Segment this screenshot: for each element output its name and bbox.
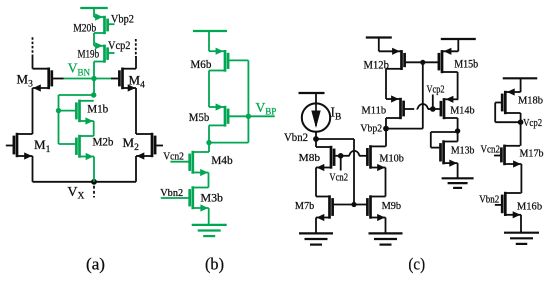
transistor M4 xyxy=(119,68,136,92)
svg-text:M9b: M9b xyxy=(382,200,402,212)
node M4b drain junction xyxy=(206,140,211,145)
wire IB to Vbn2 node xyxy=(315,132,317,139)
label Vbp2 (c) xyxy=(360,123,382,135)
label node VBP xyxy=(256,100,277,117)
power rail M15b xyxy=(441,38,476,40)
wire M2 source down xyxy=(135,156,137,182)
label IB xyxy=(331,105,342,123)
wire M15b drain to M14b source xyxy=(457,72,459,99)
transistor M7b xyxy=(316,195,354,221)
transistor M16b xyxy=(495,192,521,219)
transistor M20b xyxy=(94,13,115,34)
wire Vcn2 terminal xyxy=(340,156,342,171)
label M1b xyxy=(87,104,108,116)
wire M3 source to M1 drain xyxy=(32,88,34,134)
wire hop to M14b gate xyxy=(428,108,441,110)
label Vbn2 (IB node) xyxy=(284,132,308,144)
label M2b xyxy=(93,137,114,149)
label (b) xyxy=(205,254,224,273)
label M19b xyxy=(78,46,100,60)
wire M3b source to ground xyxy=(208,208,210,225)
svg-text:(b): (b) xyxy=(205,254,224,273)
transistor M19b xyxy=(94,42,115,63)
label Vcn2 (M17b gate) xyxy=(481,144,501,156)
label M20b xyxy=(73,20,96,34)
wire gate net down left rail xyxy=(58,95,60,144)
transistor M15b xyxy=(439,48,458,73)
label M3 xyxy=(17,72,34,90)
svg-text:Vcp2: Vcp2 xyxy=(108,38,131,52)
wire M5b drain down xyxy=(208,125,210,152)
wire M3 gate stub xyxy=(53,78,64,80)
label M10b xyxy=(379,152,404,164)
transistor M9b xyxy=(367,195,385,221)
wire M4 drain up xyxy=(135,56,137,69)
svg-text:Vcp2: Vcp2 xyxy=(427,83,445,95)
wire M19b drain to node VBN xyxy=(93,62,95,79)
svg-text:Vbp2: Vbp2 xyxy=(360,123,382,135)
svg-text:M5b: M5b xyxy=(189,110,210,124)
transistor M4b xyxy=(170,151,209,176)
svg-text:M17b: M17b xyxy=(520,148,544,160)
node VX junction xyxy=(91,179,97,185)
wire M20b drain to M19b source xyxy=(93,33,95,46)
wire M10b source to M9b drain xyxy=(385,168,387,197)
svg-text:M13b: M13b xyxy=(451,145,475,157)
power rail M12b xyxy=(366,36,392,38)
wire M6b drain to M5b source xyxy=(208,71,210,108)
svg-text:Vbn2: Vbn2 xyxy=(160,187,183,199)
node Vcn2 junction xyxy=(338,153,344,159)
wire Vbn2 node to gate drop xyxy=(316,138,354,140)
transistor M2b xyxy=(59,135,95,160)
wire M2b source to VX xyxy=(93,157,95,182)
label M13b xyxy=(451,145,475,157)
transistor M1b xyxy=(59,100,94,125)
label node VX xyxy=(67,185,84,202)
svg-text:M14b: M14b xyxy=(450,105,475,117)
wire M3 drain up xyxy=(32,57,34,69)
label Vbn2 (M3b gate) xyxy=(160,187,183,199)
label M12b xyxy=(364,60,390,72)
wire rail to IB xyxy=(315,93,317,105)
wire gate node down to Vbp2 loop xyxy=(422,62,424,128)
node M1b drain junction xyxy=(91,92,96,97)
wire Vbp2 loop xyxy=(386,128,423,130)
transistor M2 xyxy=(136,133,163,160)
wire M13b gate loop xyxy=(431,132,458,148)
ground under M7b xyxy=(299,233,333,244)
node M12b/M15b gate junction xyxy=(420,60,425,65)
wire M7b source to ground xyxy=(315,218,317,234)
ground under M16b xyxy=(504,233,539,244)
wire M13b source to ground xyxy=(457,163,459,178)
power rail (b) xyxy=(193,30,227,32)
label M7b xyxy=(295,200,315,212)
label M5b xyxy=(189,110,210,124)
transistor M17b xyxy=(494,145,521,168)
wire gate net left xyxy=(59,94,94,96)
label M11b xyxy=(361,105,386,117)
svg-text:Vbn2: Vbn2 xyxy=(284,132,308,144)
node Vcp2 junction (right) xyxy=(518,119,524,125)
ground (b) xyxy=(192,225,227,236)
wire M1b source to M2b drain xyxy=(93,121,95,136)
svg-text:Vcn2: Vcn2 xyxy=(481,144,501,156)
label M15b xyxy=(454,59,478,71)
svg-text:Vcn2: Vcn2 xyxy=(163,150,184,162)
transistor M3b xyxy=(161,186,209,211)
wire hop to M10b gate xyxy=(359,155,367,157)
wire M9b gate xyxy=(354,204,367,206)
wire M14b drain down to M13b node xyxy=(457,118,459,142)
svg-text:M1b: M1b xyxy=(87,104,108,116)
svg-text:Vcn2: Vcn2 xyxy=(329,172,348,184)
transistor M3 xyxy=(33,68,52,92)
dashed drain line above M3 xyxy=(32,37,34,58)
wire rail to M15b source xyxy=(457,39,459,51)
svg-text:M10b: M10b xyxy=(379,152,404,164)
node M7b/M9b gate junction xyxy=(351,202,356,207)
label M9b xyxy=(382,200,402,212)
label Vcp2 (right) xyxy=(523,117,542,129)
wire VBP loop to drain node xyxy=(209,142,248,144)
wire rail to M6b source xyxy=(208,31,210,51)
node Vcp2 junction (c mid) xyxy=(430,106,436,112)
node M1b gate junction xyxy=(56,108,61,113)
ground under M13b xyxy=(442,178,474,188)
wire M18b drain to Vcp2 node xyxy=(520,113,522,122)
label M6b xyxy=(190,57,211,71)
label M18b xyxy=(518,95,543,107)
ground under M9b xyxy=(369,233,403,244)
power rail IB xyxy=(299,92,325,94)
label M17b xyxy=(520,148,544,160)
transistor M8b xyxy=(316,146,341,171)
transistor M13b xyxy=(441,140,458,166)
wire M4b source to M3b drain xyxy=(208,173,210,188)
wire gate drop to M7b/M9b gates xyxy=(353,139,355,205)
current source IB xyxy=(302,103,330,131)
power rail (a top) xyxy=(80,7,108,9)
svg-text:M11b: M11b xyxy=(361,105,386,117)
wire M11b drain to Vbp2 node xyxy=(385,118,387,129)
wire M8b gate to hop xyxy=(341,155,350,157)
wire rail to M12b source xyxy=(378,38,380,52)
dashed tail current line below VX xyxy=(93,186,95,198)
wire VBN horizontal green xyxy=(63,78,111,80)
wire M9b source to ground xyxy=(385,218,387,234)
wire M4 source to M2 drain xyxy=(135,88,137,134)
svg-text:M6b: M6b xyxy=(190,57,211,71)
svg-text:M15b: M15b xyxy=(454,59,478,71)
svg-text:M2b: M2b xyxy=(93,137,114,149)
wire M18b gate loop xyxy=(495,103,520,123)
transistor M6b xyxy=(209,48,248,72)
wire VBP output stub xyxy=(248,115,274,117)
transistor M5b xyxy=(209,103,248,126)
node VBN junction xyxy=(91,76,96,81)
label M3b xyxy=(201,191,224,205)
wire tail node VX xyxy=(33,181,137,183)
wire M12b drain to M11b source xyxy=(385,69,387,99)
label M14b xyxy=(450,105,475,117)
wire Vcp2 terminal (c mid) xyxy=(432,95,434,110)
wire M8b source to M7b drain xyxy=(315,168,317,197)
svg-text:M16b: M16b xyxy=(517,201,543,213)
svg-text:M3b: M3b xyxy=(201,191,224,205)
wire VBN down to M1b drain node xyxy=(93,79,95,96)
transistor M10b xyxy=(367,145,385,171)
label M16b xyxy=(517,201,543,213)
power rail M18b xyxy=(503,77,538,79)
node Vbn2 junction xyxy=(313,136,319,142)
node M13b gate junction xyxy=(455,128,460,133)
node VBP junction xyxy=(246,114,251,119)
wire Vcp2 to M17b drain xyxy=(520,122,522,146)
label (c) xyxy=(408,254,425,273)
wire M8b drain up xyxy=(315,139,317,147)
node Vbp2 junction xyxy=(383,126,389,132)
label M4b xyxy=(211,153,233,167)
svg-text:M20b: M20b xyxy=(73,20,96,34)
svg-text:(a): (a) xyxy=(86,254,105,273)
wire M17b source to M16b drain xyxy=(520,164,522,193)
svg-text:M7b: M7b xyxy=(295,200,315,212)
dashed drain line above M4 xyxy=(135,39,137,57)
label Vbn2 (M16b gate) xyxy=(479,193,499,205)
svg-text:M19b: M19b xyxy=(78,46,100,60)
wire M16b source to ground xyxy=(520,215,522,233)
label Vbp2 (M20b gate) xyxy=(111,12,134,26)
label node VBN xyxy=(68,61,91,78)
wire rail to M18b source xyxy=(520,78,522,92)
wire M16b drain bend fix xyxy=(520,192,521,194)
label (a) xyxy=(86,254,105,273)
label Vcn2 (M8b gate) xyxy=(329,172,348,184)
label M2 xyxy=(123,135,140,153)
transistor M14b xyxy=(441,96,458,120)
wire Vbp2 to M10b drain xyxy=(385,129,387,147)
transistor M12b xyxy=(379,48,405,70)
svg-text:Vbn2: Vbn2 xyxy=(479,193,499,205)
transistor M18b xyxy=(502,88,520,114)
label M8b xyxy=(299,152,321,164)
label Vcn2 (M4b gate) xyxy=(163,150,184,162)
wire M1 source down xyxy=(32,156,34,182)
hop over Vbp2 gate line xyxy=(417,104,429,109)
wire rail to M20b source xyxy=(93,8,95,17)
wire M4 gate stub xyxy=(111,78,118,80)
label Vcp2 (c mid) xyxy=(427,83,445,95)
wire M12b gate to M15b gate xyxy=(405,61,439,63)
svg-text:M18b: M18b xyxy=(518,95,543,107)
svg-text:Vcp2: Vcp2 xyxy=(523,117,542,129)
label Vcp2 (M19b gate) xyxy=(108,38,131,52)
wire M6b/M5b gates down to VBP xyxy=(247,60,249,142)
svg-text:(c): (c) xyxy=(408,254,425,273)
svg-text:M8b: M8b xyxy=(299,152,321,164)
transistor M1 xyxy=(6,133,33,160)
transistor M11b xyxy=(386,95,414,119)
svg-text:Vbp2: Vbp2 xyxy=(111,12,134,26)
label M4 xyxy=(129,73,146,91)
label M1 xyxy=(34,137,51,155)
hop over IB gate wire xyxy=(348,151,360,156)
svg-text:M4b: M4b xyxy=(211,153,233,167)
